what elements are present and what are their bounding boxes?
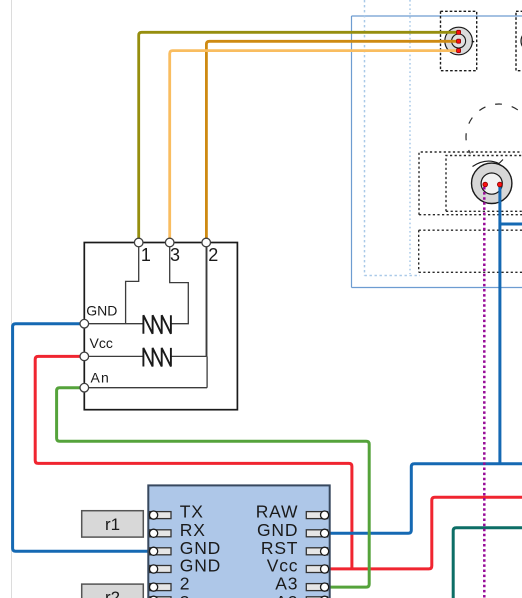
svg-text:1: 1 <box>141 245 151 265</box>
svg-text:Vcc: Vcc <box>267 556 299 576</box>
svg-text:A2: A2 <box>275 592 298 598</box>
svg-text:3: 3 <box>170 245 180 265</box>
svg-text:3: 3 <box>180 592 191 598</box>
svg-text:An: An <box>91 369 111 385</box>
svg-text:2: 2 <box>180 574 191 594</box>
svg-text:GND: GND <box>257 520 298 540</box>
svg-text:Vcc: Vcc <box>90 335 113 351</box>
svg-text:TX: TX <box>180 502 204 522</box>
svg-text:r1: r1 <box>105 515 120 534</box>
svg-text:GND: GND <box>86 303 117 319</box>
svg-text:RX: RX <box>180 520 206 540</box>
svg-text:RAW: RAW <box>256 502 299 522</box>
svg-text:GND: GND <box>180 556 221 576</box>
svg-text:r2: r2 <box>105 588 120 598</box>
svg-text:2: 2 <box>208 245 218 265</box>
svg-text:A3: A3 <box>275 574 298 594</box>
